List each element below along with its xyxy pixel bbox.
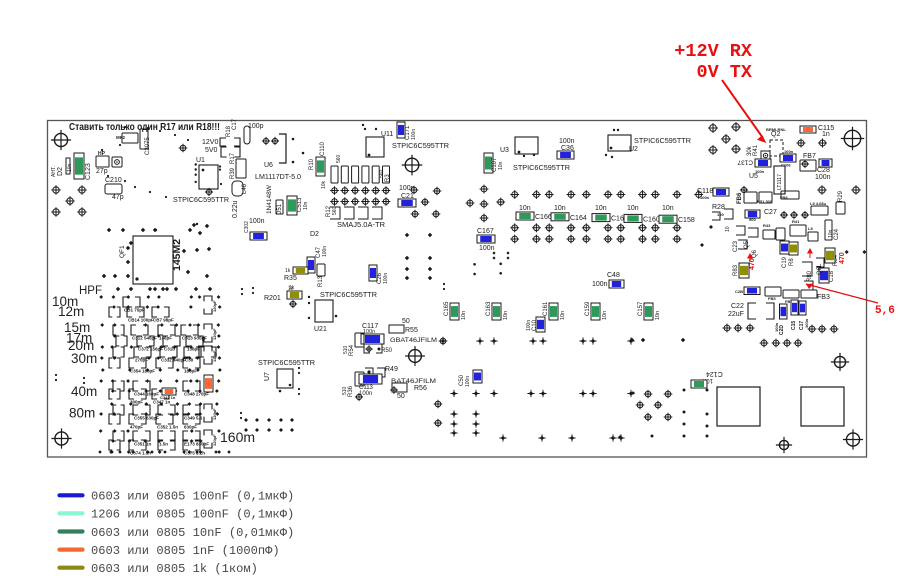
svg-text:L8: L8 <box>808 226 813 231</box>
svg-text:U7: U7 <box>264 372 271 381</box>
svg-text:D2: D2 <box>57 167 64 176</box>
svg-text:R43: R43 <box>763 223 771 228</box>
svg-text:100p: 100p <box>248 123 264 130</box>
svg-text:R17: R17 <box>230 152 236 164</box>
svg-text:LM1117DT-5.0: LM1117DT-5.0 <box>255 172 301 181</box>
svg-text:120pF: 120pF <box>212 434 217 446</box>
svg-text:100n: 100n <box>465 376 471 387</box>
svg-text:100n: 100n <box>784 149 794 154</box>
svg-text:120pF: 120pF <box>212 350 217 362</box>
svg-text:C167: C167 <box>477 228 494 235</box>
svg-text:SMAJ5.0A-TR: SMAJ5.0A-TR <box>337 220 386 229</box>
svg-text:FB6: FB6 <box>737 192 743 204</box>
svg-text:STPIC6C595TTR: STPIC6C595TTR <box>320 290 378 299</box>
svg-text:C351 1n: C351 1n <box>134 442 152 447</box>
svg-text:40m: 40m <box>71 384 97 399</box>
svg-text:470pF: 470pF <box>130 425 143 430</box>
svg-text:E1?3 830pF: E1?3 830pF <box>184 442 209 447</box>
svg-text:L46: L46 <box>242 183 248 194</box>
svg-text:R83: R83 <box>733 264 739 276</box>
svg-text:10k: 10k <box>321 180 327 189</box>
svg-text:Q6: Q6 <box>752 249 758 258</box>
svg-text:12V0: 12V0 <box>202 139 218 146</box>
svg-text:C159: C159 <box>585 301 591 316</box>
svg-text:160m: 160m <box>220 429 255 445</box>
svg-text:FB5: FB5 <box>768 296 776 301</box>
svg-text:C164: C164 <box>570 215 587 222</box>
svg-text:C22: C22 <box>731 303 744 310</box>
svg-text:Q2: Q2 <box>771 131 780 138</box>
svg-text:C15: C15 <box>791 321 797 330</box>
svg-text:R3: R3 <box>385 174 391 182</box>
svg-text:МК2: МК2 <box>116 135 125 140</box>
svg-text:1k: 1k <box>289 285 295 291</box>
svg-text:10n: 10n <box>662 205 674 212</box>
svg-text:500: 500 <box>749 217 756 222</box>
svg-text:470: 470 <box>839 252 846 264</box>
svg-text:+12V RX: +12V RX <box>674 41 753 62</box>
svg-text:10n: 10n <box>303 201 309 210</box>
svg-text:R39: R39 <box>230 167 236 179</box>
svg-text:0603 или 0805 1nF (1000пФ): 0603 или 0805 1nF (1000пФ) <box>91 544 280 558</box>
svg-text:10n: 10n <box>461 311 467 320</box>
svg-text:C2D: C2D <box>779 325 785 335</box>
svg-text:12m: 12m <box>58 304 84 319</box>
svg-text:C10: C10 <box>532 319 538 331</box>
svg-text:C165: C165 <box>444 301 450 316</box>
svg-text:C163: C163 <box>486 301 492 316</box>
svg-text:C354 180pF: C354 180pF <box>130 369 155 374</box>
svg-text:LT1117: LT1117 <box>777 174 783 190</box>
svg-text:100n: 100n <box>411 129 417 140</box>
svg-text:C161: C161 <box>543 301 549 316</box>
svg-text:R8: R8 <box>789 258 795 266</box>
svg-text:100n: 100n <box>383 273 389 284</box>
svg-text:C17: C17 <box>232 118 238 130</box>
svg-text:30m: 30m <box>71 351 97 366</box>
svg-text:U6: U6 <box>264 162 273 169</box>
svg-text:C23: C23 <box>733 240 739 252</box>
svg-text:R13: R13 <box>318 275 324 287</box>
svg-text:R201: R201 <box>264 295 281 302</box>
svg-text:10n: 10n <box>498 161 504 170</box>
svg-text:U5: U5 <box>749 173 758 180</box>
svg-text:10n: 10n <box>602 311 608 320</box>
svg-text:560: 560 <box>332 206 338 215</box>
svg-text:1n: 1n <box>822 131 830 138</box>
svg-text:STPIC6C595TTR: STPIC6C595TTR <box>513 163 571 172</box>
svg-text:47p: 47p <box>112 194 124 201</box>
svg-text:C19: C19 <box>782 256 788 268</box>
svg-text:0603 или 0805 1k (1ком): 0603 или 0805 1k (1ком) <box>91 562 258 576</box>
svg-text:100n: 100n <box>399 185 415 192</box>
svg-text:0603 или 0805 10nF (0,01мкФ): 0603 или 0805 10nF (0,01мкФ) <box>91 526 294 540</box>
svg-text:10n: 10n <box>67 163 73 172</box>
svg-text:C352 1.5n: C352 1.5n <box>157 425 178 430</box>
svg-text:CB7 98pF: CB7 98pF <box>153 318 174 323</box>
svg-text:BAT46JFILM: BAT46JFILM <box>391 378 436 385</box>
svg-text:GBAT46JFILM: GBAT46JFILM <box>390 337 437 344</box>
svg-text:10n: 10n <box>655 311 661 320</box>
svg-text:R56: R56 <box>414 385 427 392</box>
svg-text:C118: C118 <box>697 188 713 195</box>
svg-text:R55: R55 <box>405 327 418 334</box>
svg-text:C123: C123 <box>85 163 92 180</box>
svg-text:0603 или 0805 100nF (0,1мкФ): 0603 или 0805 100nF (0,1мкФ) <box>91 490 294 504</box>
svg-text:10n: 10n <box>503 311 509 320</box>
svg-text:R50: R50 <box>381 348 393 354</box>
svg-text:100n: 100n <box>592 281 608 288</box>
svg-text:Ставить только один R17 или R1: Ставить только один R17 или R18!!! <box>69 121 220 133</box>
svg-text:C158: C158 <box>678 217 695 224</box>
svg-text:10n: 10n <box>560 311 566 320</box>
svg-text:30k: 30k <box>747 145 753 156</box>
svg-text:R41: R41 <box>792 219 800 224</box>
svg-text:R36: R36 <box>348 385 354 397</box>
svg-text:100n: 100n <box>559 138 575 145</box>
svg-text:560: 560 <box>379 169 385 178</box>
svg-text:1k: 1k <box>285 268 291 274</box>
svg-text:0.22u: 0.22u <box>232 200 239 218</box>
svg-text:R10: R10 <box>309 158 315 170</box>
svg-text:1N4148W: 1N4148W <box>266 184 273 214</box>
svg-text:STPIC6C595TTR: STPIC6C595TTR <box>173 195 230 204</box>
svg-text:10n: 10n <box>519 205 531 212</box>
svg-text:1.5n: 1.5n <box>159 442 168 447</box>
svg-text:C24: C24 <box>834 228 840 240</box>
svg-text:STPIC6C595TTR: STPIC6C595TTR <box>634 136 692 145</box>
svg-text:100n: 100n <box>774 322 779 332</box>
svg-text:C28: C28 <box>817 167 830 174</box>
svg-text:100n: 100n <box>804 318 809 328</box>
svg-text:22uF: 22uF <box>728 311 744 318</box>
svg-text:FB3: FB3 <box>817 294 830 301</box>
svg-text:U2: U2 <box>629 146 638 153</box>
svg-text:L9 4.68u: L9 4.68u <box>810 201 827 206</box>
svg-text:120pF: 120pF <box>212 328 217 340</box>
svg-text:1206 или 0805 100nF (0,1мкФ): 1206 или 0805 100nF (0,1мкФ) <box>91 508 294 522</box>
svg-text:STPIC6C595TTR: STPIC6C595TTR <box>258 358 316 367</box>
svg-text:10n: 10n <box>627 205 639 212</box>
svg-text:50: 50 <box>402 318 410 325</box>
svg-text:R35: R35 <box>284 275 297 282</box>
svg-text:80m: 80m <box>69 406 95 421</box>
svg-text:510: 510 <box>343 345 349 354</box>
svg-text:HPF: HPF <box>79 285 102 297</box>
svg-text:C137: C137 <box>737 159 753 166</box>
svg-text:120pF: 120pF <box>212 300 217 312</box>
svg-text:C106: C106 <box>781 163 791 168</box>
svg-text:D51: D51 <box>277 203 283 215</box>
svg-text:100n: 100n <box>249 218 265 225</box>
svg-text:R49: R49 <box>385 366 398 373</box>
svg-text:QF1: QF1 <box>119 245 126 258</box>
svg-text:C342 1n: C342 1n <box>160 395 176 400</box>
svg-text:R28: R28 <box>712 204 725 211</box>
svg-text:5V0: 5V0 <box>205 147 218 154</box>
svg-text:100n: 100n <box>700 195 710 200</box>
svg-text:50: 50 <box>397 393 405 400</box>
svg-text:C210: C210 <box>105 177 122 184</box>
svg-text:100n: 100n <box>322 246 328 257</box>
svg-text:100: 100 <box>717 212 724 217</box>
svg-text:27p: 27p <box>96 168 108 175</box>
svg-text:C160: C160 <box>643 216 660 223</box>
svg-text:5,6: 5,6 <box>875 305 895 317</box>
svg-text:R54: R54 <box>349 344 355 356</box>
svg-text:10: 10 <box>725 226 731 232</box>
svg-text:10n: 10n <box>828 229 834 238</box>
svg-text:630pF: 630pF <box>184 425 197 430</box>
svg-text:100n: 100n <box>815 174 831 181</box>
svg-text:FB7: FB7 <box>803 153 816 160</box>
svg-text:C157: C157 <box>638 301 644 316</box>
svg-text:C48: C48 <box>607 272 620 279</box>
svg-text:D2: D2 <box>310 231 319 238</box>
svg-text:0V TX: 0V TX <box>696 62 752 83</box>
svg-text:560: 560 <box>336 154 342 163</box>
svg-text:U1: U1 <box>196 157 205 164</box>
svg-text:510: 510 <box>342 386 348 395</box>
svg-text:U21: U21 <box>314 326 327 333</box>
svg-text:C375 8.2h: C375 8.2h <box>184 451 205 456</box>
svg-text:C166: C166 <box>535 214 552 221</box>
svg-text:C302: C302 <box>244 221 250 233</box>
svg-text:STPIC6C595TTR: STPIC6C595TTR <box>392 141 450 150</box>
svg-text:CB14 100pF: CB14 100pF <box>128 318 154 323</box>
svg-text:C124: C124 <box>706 370 723 377</box>
svg-text:10n: 10n <box>595 205 607 212</box>
svg-text:Q6L: Q6L <box>817 263 823 275</box>
svg-text:R41: R41 <box>753 144 759 156</box>
svg-text:100n: 100n <box>479 245 495 252</box>
svg-text:U3: U3 <box>500 147 509 154</box>
svg-text:145M2: 145M2 <box>171 239 183 271</box>
svg-text:C110: C110 <box>320 141 326 156</box>
svg-text:C18: C18 <box>829 270 835 282</box>
svg-text:R29: R29 <box>838 190 844 202</box>
svg-text:C27: C27 <box>764 209 777 216</box>
svg-text:C2075: C2075 <box>145 137 151 155</box>
svg-text:10n: 10n <box>554 205 566 212</box>
